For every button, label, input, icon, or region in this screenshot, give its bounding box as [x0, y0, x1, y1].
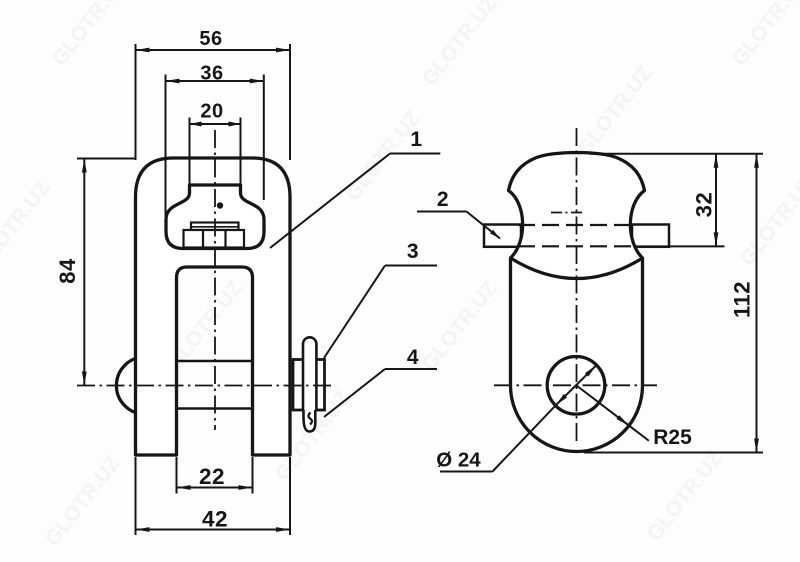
svg-text:42: 42: [202, 506, 228, 531]
svg-text:22: 22: [199, 464, 225, 489]
svg-text:R25: R25: [653, 426, 692, 449]
svg-text:36: 36: [200, 63, 223, 85]
svg-text:4: 4: [407, 346, 419, 369]
svg-text:3: 3: [407, 240, 419, 263]
svg-text:1: 1: [410, 128, 422, 151]
svg-text:56: 56: [199, 28, 222, 50]
svg-text:32: 32: [692, 192, 717, 217]
svg-text:112: 112: [730, 281, 755, 318]
svg-text:Ø 24: Ø 24: [436, 449, 481, 472]
svg-text:20: 20: [200, 101, 223, 123]
svg-text:2: 2: [437, 188, 449, 211]
svg-text:84: 84: [55, 258, 80, 284]
